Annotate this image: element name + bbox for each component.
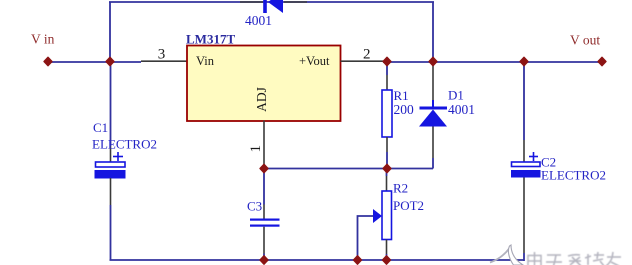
- svg-text:ELECTRO2: ELECTRO2: [92, 137, 157, 152]
- resistor R1 top pin: [386, 75, 388, 90]
- wire: C3 top: [263, 169, 265, 205]
- svg-text:200: 200: [394, 102, 415, 117]
- wire: C2 from output junction down: [523, 62, 525, 141]
- capacitor C1 bottom pin: [110, 178, 112, 205]
- terminal V in (diamond): [44, 57, 52, 65]
- diode D1 symbol lead: [432, 100, 434, 107]
- plus sign of C1: [113, 152, 123, 161]
- svg-text:R1: R1: [394, 88, 409, 103]
- label 200: [394, 102, 415, 117]
- resistor R1 bottom pin: [386, 137, 388, 152]
- glyph 1: [528, 256, 541, 265]
- potentiometer R2 bottom pin: [386, 240, 388, 255]
- capacitor C1 top pin: [110, 146, 112, 162]
- junction at R1 bottom: [383, 164, 391, 172]
- svg-text:1: 1: [248, 145, 264, 153]
- capacitor C1 wire from junction down: [110, 62, 112, 147]
- capacitor C2 negative plate (filled): [511, 170, 541, 178]
- resistor R1 body: [382, 90, 392, 137]
- label 4001 (D1 value): [448, 102, 475, 117]
- capacitor C3 top plate: [250, 219, 280, 221]
- wire: R1 bottom junction to R2 top: [386, 169, 388, 177]
- svg-text:LM317T: LM317T: [186, 32, 235, 47]
- diode D (4001) on top rail, symbol (clipped at image top): [263, 0, 283, 13]
- junction at Vin / C1: [106, 57, 114, 65]
- diode D1 bottom pin: [432, 127, 434, 159]
- label LM317T: [186, 32, 235, 47]
- svg-text:4001: 4001: [448, 102, 475, 117]
- wire: bottom rail: [110, 259, 525, 261]
- watermark text (stylized gray glyph strokes): [528, 252, 621, 265]
- label D1: [448, 88, 464, 103]
- junction at R1 top: [383, 57, 391, 65]
- label R1: [394, 88, 409, 103]
- svg-text:V in: V in: [31, 32, 55, 47]
- wire: R2 bottom to rail: [386, 254, 388, 260]
- svg-text:C1: C1: [93, 120, 108, 135]
- capacitor C3 bottom plate: [250, 225, 280, 227]
- label ELECTRO2 (C2): [541, 168, 606, 183]
- regulator U1 LM317T body: [187, 46, 341, 122]
- label C2: [541, 155, 556, 170]
- glyph 5: [607, 256, 621, 258]
- capacitor C2 bottom pin: [523, 178, 525, 254]
- wire: pin 2 to V out: [383, 61, 602, 63]
- glyph 4: [587, 254, 589, 265]
- capacitor C2 top pin: [523, 140, 525, 162]
- junction at C3 bottom: [260, 256, 268, 264]
- svg-text:2: 2: [363, 47, 371, 63]
- wire: top rail left vertical: [109, 2, 111, 62]
- pin 2 of LM317T: [341, 47, 384, 63]
- pin 3 of LM317T: [141, 47, 187, 63]
- svg-text:4001: 4001: [245, 13, 272, 28]
- svg-text:ELECTRO2: ELECTRO2: [541, 168, 606, 183]
- label POT2: [393, 198, 424, 213]
- label V in (net label): [31, 32, 55, 47]
- junction at ADJ / C3: [260, 164, 268, 172]
- capacitor C2 positive plate (outline): [512, 162, 541, 167]
- potentiometer R2 top pin: [386, 176, 388, 191]
- pin name +Vout: [299, 54, 330, 68]
- svg-text:3: 3: [158, 47, 166, 63]
- wire: wiper to bottom rail: [358, 216, 374, 260]
- diode D1 top pin: [432, 64, 434, 100]
- label R2: [393, 181, 408, 196]
- terminal V out (diamond): [598, 57, 606, 65]
- wire: ADJ net horizontal: [264, 168, 433, 170]
- label C3: [247, 199, 262, 214]
- wire: top rail horizontal: [109, 1, 434, 3]
- svg-text:R2: R2: [393, 181, 408, 196]
- svg-text:D1: D1: [448, 88, 464, 103]
- capacitor C1 positive plate (outline): [96, 162, 126, 167]
- potentiometer R2 wiper arrow: [373, 209, 382, 223]
- pin name ADJ (rotated): [254, 87, 269, 112]
- potentiometer R2 body: [382, 191, 392, 240]
- watermark swoosh logo: [490, 245, 523, 265]
- label V out (net label): [570, 33, 600, 48]
- junction at D1 top: [429, 57, 437, 65]
- wire: C1 to ground rail: [110, 205, 112, 260]
- capacitor C3 top pin: [263, 205, 265, 220]
- svg-text:POT2: POT2: [393, 198, 424, 213]
- glyph 3: [568, 255, 580, 256]
- svg-text:V out: V out: [570, 33, 600, 48]
- wire: C3 to rail: [263, 254, 265, 261]
- svg-text:+Vout: +Vout: [299, 54, 330, 68]
- resistor R1 top wire: [386, 62, 388, 76]
- junction at R2 wiper return: [354, 256, 362, 264]
- pin name Vin: [196, 54, 215, 68]
- diode D1 cathode bar: [420, 107, 448, 110]
- label C1: [93, 120, 108, 135]
- wire: D1 bottom to ADJ net: [432, 158, 434, 169]
- svg-text:C3: C3: [247, 199, 262, 214]
- wire: top rail right vertical: [432, 2, 434, 62]
- resistor R1 bottom wire: [386, 152, 388, 169]
- wire: C2 to rail: [523, 253, 525, 261]
- svg-text:Vin: Vin: [196, 54, 215, 68]
- capacitor C1 negative plate (filled): [95, 170, 126, 179]
- plus sign of C2: [529, 152, 538, 161]
- pin 1 (ADJ) of LM317T: [248, 121, 264, 169]
- junction at R2 bottom: [383, 256, 391, 264]
- svg-text:ADJ: ADJ: [254, 87, 269, 112]
- diode D1 triangle: [419, 110, 447, 127]
- diode D (4001) on top rail, pin leads: [240, 1, 307, 3]
- junction at C2 top: [520, 57, 528, 65]
- wire: V in to pin 3: [48, 61, 141, 63]
- capacitor C3 bottom pin: [263, 227, 265, 254]
- label ELECTRO2 (C1): [92, 137, 157, 152]
- label 4001 (top diode value): [245, 13, 272, 28]
- glyph 2: [547, 254, 561, 256]
